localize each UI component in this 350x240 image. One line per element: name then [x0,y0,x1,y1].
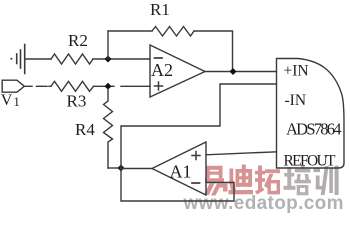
svg-text:ADS7864: ADS7864 [286,120,342,139]
node junction at A2 output [230,68,237,75]
node junction at R3/R4 [105,83,112,90]
op-amp A2 [150,45,205,97]
svg-text:+IN: +IN [284,63,309,80]
svg-text:R3: R3 [67,92,87,111]
wire V1 to R3 (dashed appearance) [24,85,51,87]
wire A1 feedback loop [121,168,234,201]
svg-text:A2: A2 [151,60,173,80]
wire A1 plus to REFOUT [206,152,277,155]
A1 minus pin mark [192,182,200,184]
resistor R2 [51,54,93,64]
svg-text:REFOUT: REFOUT [284,153,337,170]
A1 plus pin mark [192,152,200,160]
svg-text:-IN: -IN [285,92,307,109]
op-amp A1 [152,142,206,195]
node junction at R2/R1 [105,56,112,63]
svg-text:A1: A1 [170,162,192,182]
wire R2 to A2 minus input [93,58,150,60]
wire R1 to right vertical [194,31,233,72]
ground [11,45,25,74]
svg-text:R2: R2 [68,31,88,50]
IC ADS7864 [277,59,345,169]
wire -IN to loop [121,84,277,168]
wire R3 to A2 plus input (dashed appearance) [94,85,151,87]
wire ground to R2 [26,58,52,60]
resistor R4 [104,89,113,168]
A2 minus pin mark [155,57,163,59]
svg-text:V1: V1 [1,92,20,109]
wire A2 output to ADS7864 +IN [205,71,277,73]
wire A1 output [121,168,152,170]
wire R1 left vertical [107,31,109,59]
svg-text:R1: R1 [150,0,170,19]
resistor R1 [152,27,194,37]
svg-text:www.edatop.com: www.edatop.com [183,193,344,214]
wire top to R1 [108,30,152,32]
svg-text:R4: R4 [75,120,95,139]
resistor R3 [51,81,94,91]
node junction at A1 output [118,165,125,172]
A2 plus pin mark [155,82,163,90]
wire R4 to node [108,167,121,169]
port V1 [2,80,24,92]
